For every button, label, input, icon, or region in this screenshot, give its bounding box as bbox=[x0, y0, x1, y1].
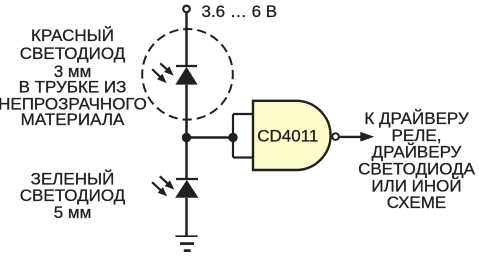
svg-text:CD4011: CD4011 bbox=[257, 127, 318, 146]
svg-text:СВЕТОДИОД: СВЕТОДИОД bbox=[20, 44, 126, 63]
light arrows into red LED bbox=[152, 63, 174, 83]
label: output destination note bbox=[358, 109, 476, 212]
voltage label 3.6 ... 6 V bbox=[202, 2, 278, 21]
svg-text:СХЕМЕ: СХЕМЕ bbox=[387, 193, 447, 212]
wire red LED to green LED bbox=[185, 85, 188, 179]
junction node on LED chain bbox=[182, 133, 191, 142]
wire junction to gate inputs bbox=[187, 136, 234, 139]
LED D1 red: cathode bar bbox=[176, 65, 197, 67]
wire from terminal to red LED bbox=[185, 13, 188, 66]
dashed circle (opaque tube) around red LED bbox=[142, 29, 233, 120]
gate label CD4011 bbox=[257, 127, 318, 146]
svg-text:5 мм: 5 мм bbox=[54, 203, 92, 222]
svg-text:КРАСНЫЙ: КРАСНЫЙ bbox=[31, 26, 114, 45]
svg-text:МАТЕРИАЛА: МАТЕРИАЛА bbox=[21, 110, 125, 129]
junction node at gate input tie bbox=[228, 133, 237, 142]
supply terminal bbox=[183, 6, 190, 13]
label: green LED note bbox=[20, 169, 126, 222]
output wire with arrow bbox=[339, 132, 374, 142]
NAND gate U1 CD4011 body bbox=[253, 101, 331, 170]
wire green LED to ground bbox=[185, 198, 188, 236]
LED D2 green: cathode bar bbox=[176, 178, 198, 180]
svg-text:3.6 … 6 В: 3.6 … 6 В bbox=[202, 2, 278, 21]
input tie wire bbox=[233, 114, 254, 158]
svg-text:СВЕТОДИОД: СВЕТОДИОД bbox=[20, 186, 126, 205]
output inversion bubble bbox=[332, 133, 339, 140]
LED D1 red: triangle bbox=[175, 67, 197, 85]
LED D2 green: triangle bbox=[175, 180, 198, 198]
label: red LED note bbox=[0, 26, 147, 129]
ground bbox=[175, 236, 197, 250]
light arrows into green LED bbox=[152, 176, 174, 196]
